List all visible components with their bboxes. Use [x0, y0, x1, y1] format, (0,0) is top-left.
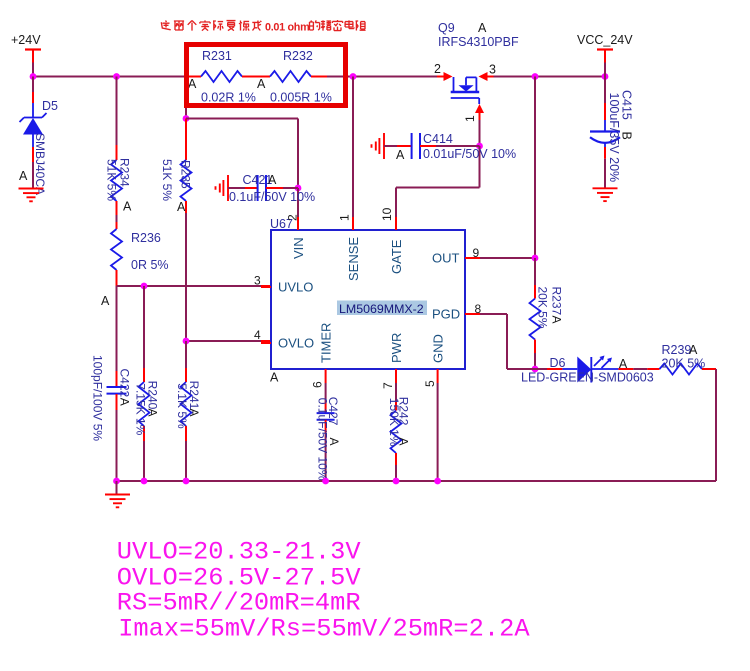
svg-text:1: 1 [463, 115, 477, 122]
svg-text:0.1uF/50V 10%: 0.1uF/50V 10% [229, 190, 315, 204]
resistor R241A 5.1K [185, 341, 187, 368]
svg-text:A: A [177, 200, 186, 214]
svg-text:LED-GREEN-SMD0603: LED-GREEN-SMD0603 [521, 371, 654, 385]
pin 7 PWR [395, 369, 397, 383]
wire rail R232-to-Q9 [327, 76, 441, 78]
svg-text:SMBJ40CA: SMBJ40CA [33, 133, 47, 195]
svg-text:TIMER: TIMER [318, 323, 333, 363]
svg-text:A: A [188, 77, 197, 91]
junction rail at SENSE [350, 73, 357, 80]
svg-text:A: A [257, 77, 266, 91]
wire PGD net [480, 313, 507, 315]
wire VIN net tap to pin [186, 118, 298, 120]
wire rail Q9-to-VCC [492, 76, 605, 78]
svg-text:5.1K 5%: 5.1K 5% [175, 383, 189, 429]
svg-text:2: 2 [434, 62, 441, 76]
capacitor C414 0.01uF [383, 133, 385, 159]
pin 2 VIN [297, 217, 299, 230]
svg-text:3: 3 [254, 274, 261, 288]
svg-text:GND: GND [430, 334, 445, 363]
junction rail at OUT [532, 73, 539, 80]
resistor R236 0R [116, 222, 118, 229]
svg-text:A: A [397, 438, 411, 446]
svg-text:A: A [270, 371, 279, 385]
pin 1 SENSE [352, 217, 354, 230]
svg-text:+24V: +24V [11, 33, 41, 47]
ground of C415 [593, 187, 618, 189]
wire left column down to C422A [116, 286, 118, 371]
resistor R231 0.02R [189, 76, 201, 78]
svg-text:20K 5%: 20K 5% [536, 287, 550, 329]
svg-text:OVLO: OVLO [278, 336, 314, 351]
svg-text:0.01uF/50V 10%: 0.01uF/50V 10% [423, 147, 516, 161]
wire bottom ground rail [117, 480, 717, 482]
svg-text:51K 5%: 51K 5% [105, 159, 119, 201]
svg-text:C414: C414 [423, 132, 453, 146]
wire OUT net [480, 257, 535, 259]
junction rail at R234 [113, 73, 120, 80]
junction PGD LED R237A [532, 366, 539, 373]
wire gate net down-left to GATE pin [479, 146, 481, 188]
svg-text:PWR: PWR [389, 333, 404, 363]
pin 10 GATE [395, 217, 397, 230]
wire gate net Q9 to C414 junction [479, 120, 481, 146]
svg-text:UVLO: UVLO [278, 280, 313, 295]
svg-text:IRFS4310PBF: IRFS4310PBF [438, 35, 519, 49]
svg-text:0.02R 1%: 0.02R 1% [201, 91, 256, 105]
capacitor C415 100uF polarized [604, 77, 606, 104]
svg-text:A: A [689, 343, 698, 357]
svg-text:Imax=55mV/Rs=55mV/25mR=2.2A: Imax=55mV/Rs=55mV/25mR=2.2A [118, 614, 530, 643]
svg-text:3: 3 [489, 63, 496, 77]
svg-text:10: 10 [380, 207, 394, 221]
svg-text:0.01 ohm: 0.01 ohm [265, 22, 309, 34]
svg-text:4: 4 [254, 328, 261, 342]
capacitor C421A 0.1uF [227, 175, 229, 201]
svg-text:100uF/35V 20%: 100uF/35V 20% [607, 93, 621, 183]
svg-text:GATE: GATE [389, 239, 404, 274]
svg-text:OUT: OUT [432, 251, 460, 266]
svg-text:100pF/100V 5%: 100pF/100V 5% [91, 355, 105, 441]
pin 9 OUT [465, 257, 480, 259]
junction R235 VIN tap [183, 115, 190, 122]
pin 3 UVLO [261, 286, 271, 288]
wire GND pin down [437, 383, 439, 481]
svg-text:A: A [478, 21, 487, 35]
wire SENSE net [352, 77, 354, 218]
svg-text:R232: R232 [283, 49, 313, 63]
svg-text:9: 9 [473, 246, 480, 260]
svg-text:D6: D6 [550, 356, 566, 370]
resistor R242 150K [395, 383, 397, 402]
resistor R237A 20K [534, 258, 536, 285]
resistor R240A 7.15K [143, 286, 145, 368]
svg-text:Q9: Q9 [438, 21, 455, 35]
svg-text:A: A [268, 173, 277, 187]
annotation red box around R231 R232 [187, 45, 346, 106]
svg-text:C422: C422 [117, 369, 131, 398]
junction bottom C422A [113, 478, 120, 485]
capacitor C422A 100pF [116, 371, 118, 387]
svg-text:5: 5 [423, 380, 437, 387]
junction rail at VCC_24V [602, 73, 609, 80]
svg-text:2: 2 [286, 214, 300, 221]
label annotation Chinese red text [161, 21, 170, 30]
resistor R239A 20K [647, 368, 659, 370]
ground bottom rail [116, 481, 118, 494]
svg-text:A: A [19, 169, 28, 183]
svg-text:VCC_24V: VCC_24V [577, 33, 633, 47]
junction bottom R241A [183, 478, 190, 485]
pin 6 TIMER [325, 369, 327, 383]
pin 1 gate of Q9 [475, 104, 484, 113]
junction bottom R240A [141, 478, 148, 485]
svg-text:B: B [620, 132, 634, 140]
junction OUT R237A [532, 255, 539, 262]
svg-text:UVLO=20.33-21.3V: UVLO=20.33-21.3V [117, 538, 362, 567]
svg-text:A: A [327, 438, 341, 446]
wire right side down [715, 369, 717, 481]
svg-text:7.15K 1%: 7.15K 1% [134, 383, 148, 435]
junction R241A on OVLO [183, 338, 190, 345]
IC U67 LM5069MMX-2 [271, 230, 465, 369]
svg-text:VIN: VIN [291, 237, 306, 259]
junction bottom R242 [393, 478, 400, 485]
svg-text:51K 5%: 51K 5% [160, 159, 174, 201]
svg-text:R234: R234 [118, 158, 132, 187]
svg-text:A: A [396, 148, 405, 162]
svg-text:R236: R236 [131, 231, 161, 245]
junction rail at D5 [30, 73, 37, 80]
junction C421A on VIN wire [295, 185, 302, 192]
svg-text:0.005R 1%: 0.005R 1% [270, 91, 332, 105]
ground of D5 [19, 188, 44, 190]
svg-text:A: A [117, 398, 131, 406]
svg-text:A: A [123, 200, 132, 214]
wire UVLO net [117, 285, 262, 287]
node main +24V rail wire [33, 76, 189, 78]
resistor R234 51K [116, 77, 118, 146]
junction gate C414 [476, 143, 483, 150]
junction bottom GND pin [434, 478, 441, 485]
pin 4 OVLO [261, 342, 271, 344]
svg-text:0R 5%: 0R 5% [131, 258, 169, 272]
svg-text:D5: D5 [42, 99, 58, 113]
svg-text:RS=5mR//20mR=4mR: RS=5mR//20mR=4mR [117, 589, 361, 618]
svg-text:R237: R237 [550, 287, 564, 316]
svg-text:6: 6 [311, 381, 325, 388]
svg-text:20K 5%: 20K 5% [662, 357, 706, 371]
pin 8 PGD [465, 313, 480, 315]
junction bottom C427 [322, 478, 329, 485]
pin 5 GND [437, 369, 439, 383]
svg-text:R231: R231 [202, 49, 232, 63]
wire OVLO net [186, 340, 261, 342]
svg-text:R235: R235 [179, 160, 193, 189]
svg-text:A: A [550, 316, 564, 324]
svg-text:A: A [101, 294, 110, 308]
svg-text:1: 1 [338, 214, 352, 221]
svg-text:LM5069MMX-2: LM5069MMX-2 [339, 302, 424, 316]
label LM5069MMX-2 [337, 301, 427, 316]
svg-text:PGD: PGD [432, 307, 460, 322]
junction R240A on UVLO [141, 283, 148, 290]
svg-text:R239: R239 [662, 343, 692, 357]
capacitor C427 0.1uF [325, 383, 327, 402]
resistor R235 51K [185, 77, 187, 119]
svg-text:7: 7 [381, 382, 395, 389]
svg-text:SENSE: SENSE [346, 237, 361, 281]
diode D5 SMBJ40CA zener [32, 77, 34, 93]
resistor R232 0.005R [270, 71, 311, 82]
